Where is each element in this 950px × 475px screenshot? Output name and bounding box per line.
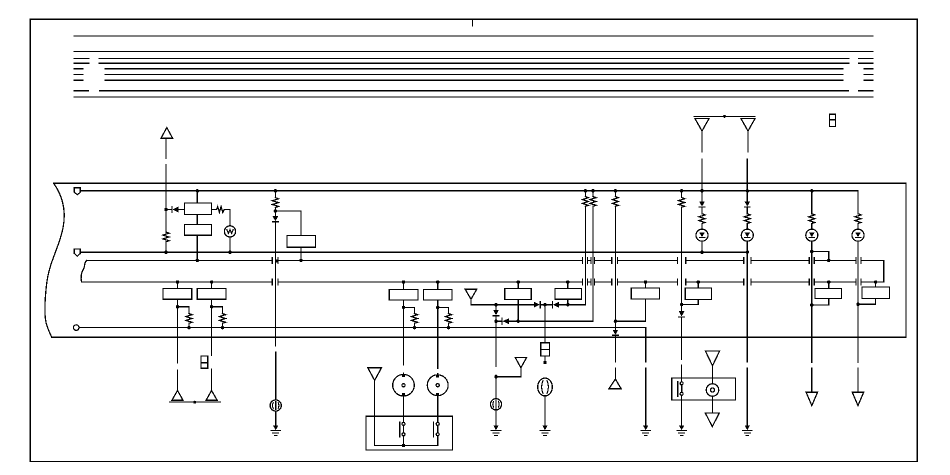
- wire D down: [437, 300, 439, 368]
- node wire 812 on rail 1: [810, 189, 813, 192]
- node rail 1 feed of U1: [196, 189, 199, 192]
- wire U3 to bus line 1: [300, 247, 302, 260]
- node wire 682 on rail 1: [680, 189, 683, 192]
- wire U1 to resistor R2: [212, 209, 217, 211]
- page connector triangle P3 (up): [161, 128, 173, 139]
- wire D1 to box U1: [179, 209, 185, 211]
- wire joining top page connectors: [694, 115, 755, 117]
- node rect G on bus line 2: [644, 280, 647, 283]
- node rect H2 on bus line 2: [827, 280, 830, 283]
- diode D10 (pointing down): [679, 311, 685, 317]
- wire LED3 down: [811, 241, 813, 362]
- wire R5 to rail 3: [222, 323, 224, 327]
- LED lamp LED3: [806, 229, 818, 241]
- bulb L4 (oval): [538, 378, 553, 396]
- node rect H3 on bus line 2: [874, 280, 877, 283]
- node rect H1 on bus line 2: [697, 280, 700, 283]
- page connector triangle P9 (down): [852, 392, 863, 405]
- wire bus 2 to rect A: [177, 282, 179, 289]
- node branch: [274, 209, 277, 212]
- node D branch: [436, 306, 439, 309]
- node H2 loop on wire 812: [810, 303, 813, 306]
- box G: [631, 288, 659, 299]
- wire rail1 to resistor R8: [584, 191, 586, 197]
- wire D7 down: [614, 335, 616, 379]
- module box right edge: [905, 183, 907, 337]
- wire harness line 7: [74, 79, 873, 81]
- node U2 on bus line 1: [196, 259, 199, 262]
- box H2: [815, 289, 842, 299]
- long wire D2 down through buses: [274, 222, 276, 400]
- page connector triangle P7 (up): [609, 379, 621, 389]
- node R7 on rail 3: [447, 326, 450, 329]
- node on wire P3: [164, 208, 167, 211]
- wire L4 to ground: [544, 396, 546, 426]
- ground bar under T1 T2: [169, 401, 220, 403]
- node step on bus line 1: [827, 259, 830, 262]
- wire P10 to relay box: [712, 366, 714, 378]
- wire harness line 4: [74, 62, 873, 64]
- ground G4: [641, 426, 650, 436]
- node D3 feed on L1: [494, 303, 497, 306]
- relay switch S3: [678, 382, 683, 397]
- diode D2 (pointing down): [273, 216, 279, 222]
- node P6 stem joins wire: [494, 375, 497, 378]
- wire 496 lower: L2 to lamp: [495, 321, 497, 399]
- page connector triangle P10 (down): [705, 351, 719, 366]
- wire L1 to D3: [495, 305, 497, 310]
- wire coil to triangle below: [712, 396, 714, 413]
- wire rail1 to resistor R13: [811, 191, 813, 214]
- wire M1 into sender box: [403, 396, 405, 423]
- wire bus 2 to rect E: [517, 282, 519, 289]
- wire rail 1 to resistor R3: [274, 191, 276, 198]
- ground G1: [271, 426, 280, 436]
- wire M2 into sender box: [437, 396, 439, 423]
- node U3 on bus line 1: [299, 259, 302, 262]
- box B: [197, 289, 226, 300]
- wire harness line 1: [74, 35, 873, 37]
- box U1: [185, 203, 212, 215]
- wire G down and left to wire 615: [615, 299, 645, 321]
- box C: [389, 289, 418, 300]
- wire R12 to LED2: [746, 224, 748, 230]
- node lamp feed on L1: [543, 303, 546, 306]
- node R1 on rail 2: [164, 251, 167, 254]
- wire branch to box U3: [275, 211, 301, 236]
- wire harness line 3: [74, 57, 873, 59]
- node on ground bar: [193, 401, 196, 404]
- diode D3 (pointing down): [493, 310, 499, 316]
- resistor R15: [679, 198, 685, 208]
- resistor R12: [744, 214, 750, 224]
- node feed on rail 1: [274, 189, 277, 192]
- rail 3: [79, 327, 646, 329]
- terminal node: [543, 361, 546, 364]
- module box bottom edge: [52, 336, 906, 338]
- node on bus line 1 crossing: [275, 260, 278, 263]
- sender switch S2: [433, 422, 439, 437]
- wire R14 to LED4: [857, 224, 859, 230]
- wire L2 node to D6: [496, 320, 502, 322]
- node rect A on bus line 2: [176, 280, 179, 283]
- box H3: [862, 287, 890, 299]
- wire harness line 6: [74, 73, 873, 75]
- wire LED1 to rail 2: [701, 241, 703, 252]
- rail 1 corner to wire 858: [857, 191, 859, 214]
- wire harness line 2: [74, 51, 873, 53]
- wire P4 into sender box: [374, 380, 376, 445]
- wire P5 to link line L1: [470, 299, 472, 305]
- node R5 on rail 3: [221, 326, 224, 329]
- wire S2 to box bottom bar: [437, 436, 439, 446]
- wire C down: [403, 300, 405, 365]
- link line L1 left part: [471, 304, 534, 306]
- node rect C on bus line 2: [402, 280, 405, 283]
- node rect E on bus line 2: [517, 280, 520, 283]
- node A branch: [176, 305, 179, 308]
- LED lamp LED1: [696, 229, 708, 241]
- page connector triangle P8 (down): [806, 392, 817, 405]
- wire node to D1: [166, 209, 172, 211]
- resistor R7: [446, 314, 452, 324]
- node B branch: [210, 305, 213, 308]
- diode D1 (pointing left): [172, 206, 179, 212]
- wire bus 2 to rect H1: [697, 282, 699, 288]
- wire P6 stem: [496, 368, 521, 377]
- wire E down to L2: [517, 299, 519, 321]
- page connector triangle P4 (down): [368, 368, 382, 381]
- resistor R14: [855, 214, 861, 224]
- relay coil RC1: [706, 384, 718, 396]
- wire lamp node down from L1: [544, 305, 546, 343]
- diode D9 (pointing down): [745, 202, 751, 208]
- node wire 585 on rail 1: [584, 189, 587, 192]
- bus line 2 (segments between inline connectors): [82, 281, 884, 283]
- wire LED2 to rail 2 end: [746, 241, 748, 252]
- diode D8 (pointing down): [699, 202, 705, 208]
- wire R10 down to diode D7: [614, 206, 616, 329]
- wire D lower segment to motor M2: [437, 374, 439, 375]
- rail 1 terminal (pentagon): [74, 188, 80, 195]
- box U2: [185, 225, 212, 236]
- module box top edge: [54, 182, 906, 184]
- wire harness line 9: [74, 96, 873, 98]
- node LED2 on rail 2: [746, 251, 749, 254]
- ground wire from rail 3: [645, 368, 647, 426]
- ground G2: [491, 426, 500, 436]
- wire D4 to D5: [540, 304, 552, 306]
- resistor R2 (horizontal): [217, 207, 225, 213]
- lamp L2: [270, 400, 281, 411]
- wire R3 to node: [274, 207, 276, 216]
- ground G6: [677, 426, 686, 436]
- wire branch to resistor R7: [438, 307, 449, 313]
- box U3: [287, 236, 316, 248]
- wire L3 to ground: [495, 410, 497, 426]
- connector tick on top border: [472, 19, 474, 26]
- node L1 on rail 2: [228, 251, 231, 254]
- node wire 702 on rail 1: [700, 189, 703, 192]
- wire H2 down and left to wire 812: [812, 299, 829, 305]
- wire 747 below rail 2 to ground: [746, 252, 748, 425]
- node rect G link on wire 615: [614, 320, 617, 323]
- wire harness line 8: [74, 90, 873, 92]
- wire A lower segment: [177, 370, 179, 391]
- wire P2 to rail 1: [746, 131, 749, 191]
- wire bus 2 to rect H2: [828, 282, 830, 289]
- page connector triangle P6 (down): [515, 358, 526, 368]
- sender box: [366, 416, 453, 450]
- node step branch: [810, 250, 813, 253]
- resistor R10: [612, 197, 618, 207]
- wire LED4 down: [857, 241, 859, 392]
- resistor R13: [809, 214, 815, 224]
- node R4 on rail 3: [187, 326, 190, 329]
- wire U1 to U2: [196, 215, 198, 225]
- node rect E wire on L2: [517, 320, 520, 323]
- resistor R3: [272, 198, 278, 208]
- gauge motor M1: [393, 374, 415, 396]
- module box torn left edge: [45, 183, 64, 337]
- resistor R4: [186, 314, 192, 324]
- wire C lower segment to motor M1: [403, 373, 405, 374]
- wire bus 2 to rect F: [567, 282, 569, 289]
- inline connector C1: [201, 356, 208, 368]
- resistor R1: [163, 232, 169, 242]
- wire bus 2 to rect B: [211, 282, 213, 289]
- wire P10 stem to coil: [712, 378, 714, 384]
- wire B lower segment: [211, 369, 213, 391]
- wire bus 2 to rect H3: [875, 282, 877, 287]
- node left end of L2: [494, 320, 497, 323]
- wire R6 to rail 3: [414, 323, 416, 327]
- wire H1 down and left to wire 682: [682, 299, 699, 304]
- rail 3 drop to ground wire: [645, 328, 647, 362]
- wire B down: [211, 299, 213, 355]
- wire bus 2 to rect C: [403, 282, 405, 289]
- node rect D on bus line 2: [436, 280, 439, 283]
- wire bus 2 to rect G: [645, 282, 647, 288]
- diode D7 (pointing down): [613, 330, 619, 336]
- node rect B on bus line 2: [210, 280, 213, 283]
- bus line 2 inline connector ticks: [272, 279, 861, 285]
- sender box bottom bar wire: [375, 445, 438, 447]
- resistor R6: [412, 314, 418, 324]
- wire step to bus line 1: [812, 252, 829, 261]
- wire R4 to rail 3: [188, 323, 190, 327]
- page connector triangle P2 (down): [741, 119, 755, 131]
- wire L2 to ground: [275, 411, 277, 426]
- wire rail1 to diode D8: [701, 191, 703, 202]
- bus pair torn left end: [81, 260, 87, 282]
- wire A down: [177, 299, 179, 363]
- wire F down to L1: [567, 299, 569, 305]
- wire harness line 5: [74, 68, 873, 70]
- page connector triangle P1 (down): [695, 119, 709, 131]
- wire D10 down into relay box: [681, 317, 683, 382]
- ground G3: [540, 426, 549, 436]
- resistor R9: [590, 197, 596, 207]
- LED lamp LED4: [852, 229, 864, 241]
- node wire 593 on rail 1: [591, 189, 594, 192]
- node H3 loop on wire 858: [856, 303, 859, 306]
- node R6 on rail 3: [413, 326, 416, 329]
- box E: [505, 289, 532, 300]
- page connector triangle P11 (down): [705, 413, 719, 427]
- wire P3 down: [165, 138, 167, 209]
- link line L2: [509, 320, 593, 322]
- bus line 1 inline connector ticks: [272, 257, 861, 263]
- node C branch: [402, 306, 405, 309]
- wire D9 to resistor R12: [746, 207, 748, 214]
- wire R13 to LED3: [811, 224, 813, 230]
- rail 3 terminal (circle): [73, 325, 79, 331]
- wire D3 to L2: [495, 316, 497, 322]
- wire D8 to resistor R11: [701, 207, 703, 214]
- wire S1 to box bottom bar: [403, 436, 405, 446]
- box A: [163, 289, 192, 300]
- resistor R11: [699, 214, 705, 224]
- wire R8 down to L1 right end: [584, 206, 586, 304]
- sender switch S1: [400, 422, 405, 437]
- wire P1 to rail 1: [701, 131, 703, 191]
- wire node to resistor R1: [165, 210, 167, 233]
- wire rail 1 to U1: [196, 191, 198, 203]
- node wire 747 on rail 1: [746, 189, 749, 192]
- diode D5 (pointing left): [553, 302, 559, 308]
- node H1 loop on wire 682: [680, 303, 683, 306]
- wire rail1 to resistor R15: [681, 191, 683, 198]
- wire branch to resistor R4: [178, 307, 190, 314]
- connector symbol (isolated, top right): [829, 114, 835, 126]
- wire S3 to ground: [681, 395, 683, 425]
- wire 812 lower segment: [811, 368, 813, 392]
- resistor R8: [582, 197, 588, 207]
- resistor R5: [220, 314, 226, 324]
- box D: [423, 289, 452, 300]
- lamp L1: [224, 226, 235, 237]
- ground triangle T1: [172, 391, 183, 401]
- rail 2: [80, 251, 747, 253]
- wire branch to resistor R5: [212, 307, 223, 314]
- diode D4 (pointing right): [534, 302, 540, 308]
- LED lamp LED2: [741, 229, 753, 241]
- wire H3 down and left to wire 858: [858, 299, 876, 305]
- wire rail1 to resistor R10: [614, 191, 616, 197]
- wire branch to resistor R6: [404, 307, 415, 313]
- diode D6 (pointing left): [502, 318, 509, 324]
- node rect F on L1: [566, 303, 569, 306]
- ground triangle T2: [206, 391, 217, 401]
- relay box: [672, 378, 736, 400]
- wire R2 to lamp L1: [224, 210, 230, 226]
- node S1 on bottom bar: [402, 444, 405, 447]
- node rect F on bus line 2: [566, 280, 569, 283]
- gauge motor M2: [427, 375, 448, 396]
- node LED1 on rail 2: [700, 251, 703, 254]
- wire rail1 to diode D9: [746, 191, 748, 202]
- wire R7 to rail 3: [448, 323, 450, 327]
- node wire 615 on rail 1: [614, 189, 617, 192]
- wire C2 stub with terminal node: [544, 356, 546, 362]
- node on that wire: [723, 115, 726, 118]
- lamp L3: [490, 399, 501, 410]
- bus line 1 right end drop to bus line 2: [883, 260, 885, 282]
- box F: [555, 289, 582, 300]
- link line L1 right part: [559, 304, 586, 306]
- page connector triangle P5 (down): [465, 289, 477, 299]
- wire R1 to rail 2: [165, 242, 167, 252]
- wire R11 to LED1: [701, 224, 703, 230]
- wire U2 to bus line 1: [196, 235, 198, 260]
- wire rail1 to resistor R9: [592, 191, 594, 197]
- box H1: [685, 288, 711, 299]
- rail 1: [80, 190, 858, 192]
- wire L1 to rail 2: [229, 237, 231, 252]
- wire R9 down to L2 right end: [592, 206, 594, 321]
- inline connector C2: [541, 343, 550, 356]
- ground G5: [743, 426, 752, 436]
- bus line 1 (segments between inline connectors): [87, 259, 884, 261]
- wire bus 2 to rect D: [437, 282, 439, 289]
- rail 2 terminal (pentagon): [74, 249, 80, 256]
- wire R15 down: [681, 207, 683, 311]
